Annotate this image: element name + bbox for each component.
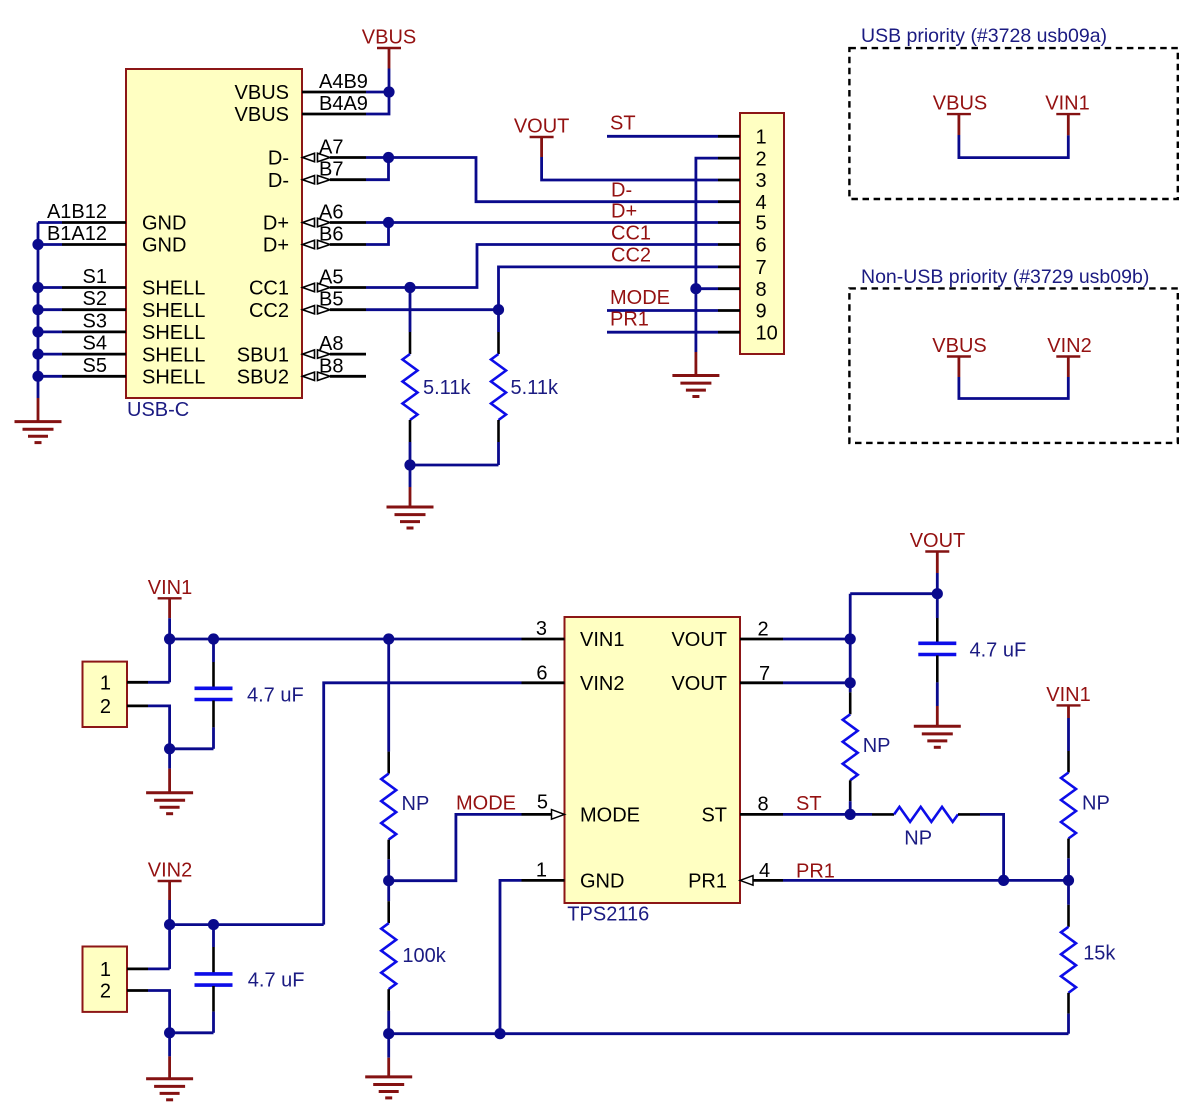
junction: [32, 304, 43, 315]
resistor R6 NP: [850, 813, 872, 816]
wire jumper b: [959, 377, 1068, 399]
svg-text:2: 2: [758, 619, 769, 641]
svg-text:GND: GND: [580, 871, 624, 893]
svg-text:5.11k: 5.11k: [423, 377, 471, 399]
junction: [32, 326, 43, 337]
junction: [494, 1028, 505, 1039]
wire cap bottom: [170, 747, 214, 750]
svg-text:B6: B6: [319, 224, 343, 246]
svg-text:NP: NP: [904, 828, 932, 850]
jumper option box usb09b: [849, 288, 1177, 443]
svg-text:VIN2: VIN2: [148, 860, 192, 882]
svg-text:4.7 uF: 4.7 uF: [248, 970, 305, 992]
svg-text:SHELL: SHELL: [142, 344, 205, 366]
resistor R4 100k: [387, 881, 390, 902]
header pin 2: [718, 157, 740, 160]
svg-text:A1B12: A1B12: [47, 201, 107, 223]
wire ST net: [783, 813, 850, 816]
svg-text:VOUT: VOUT: [671, 673, 727, 695]
wire VIN1 node: [168, 618, 171, 639]
svg-text:B8: B8: [319, 355, 343, 377]
junction: [1063, 875, 1074, 886]
svg-text:B5: B5: [319, 289, 343, 311]
svg-text:2: 2: [756, 148, 767, 170]
svg-text:PR1: PR1: [610, 309, 649, 331]
USB-C pin A7 (D-): [303, 153, 315, 161]
USB-C pin B6 (D+): [303, 240, 315, 248]
svg-text:S1: S1: [83, 266, 107, 288]
wire MODE net: [389, 814, 522, 880]
svg-text:D-: D-: [268, 170, 289, 192]
wire GND pin net: [500, 880, 522, 1033]
svg-text:A5: A5: [319, 267, 343, 289]
svg-text:D-: D-: [268, 148, 289, 170]
U1 pin 8 ST: [740, 813, 783, 816]
header pin 10: [718, 331, 740, 334]
svg-text:2: 2: [100, 696, 111, 718]
USB-C pin S5 (SHELL): [62, 375, 126, 378]
svg-text:ST: ST: [796, 793, 822, 815]
header pin 9: [718, 309, 740, 312]
wire GND bus left: [37, 223, 40, 399]
U1 pin 1 GND: [522, 879, 565, 882]
svg-text:VBUS: VBUS: [932, 335, 986, 357]
svg-text:VIN1: VIN1: [1046, 684, 1090, 706]
junction: [164, 743, 175, 754]
junction: [383, 875, 394, 886]
U1 pin 6 VIN2: [522, 681, 565, 684]
ground: [695, 352, 698, 376]
svg-text:5: 5: [756, 213, 767, 235]
svg-text:D-: D-: [611, 180, 632, 202]
svg-text:S3: S3: [83, 310, 107, 332]
svg-text:SHELL: SHELL: [142, 300, 205, 322]
ground: [168, 1033, 171, 1057]
svg-text:TPS2116: TPS2116: [567, 904, 649, 926]
svg-text:7: 7: [756, 257, 767, 279]
junction CC2: [493, 304, 504, 315]
wire GND bus header: [696, 158, 718, 352]
header pin 6: [718, 243, 740, 246]
svg-text:A7: A7: [319, 137, 343, 159]
junction: [404, 459, 415, 470]
wire PR1 net: [783, 879, 1069, 882]
wire PR1: [607, 331, 718, 334]
header pin 8: [718, 287, 740, 290]
svg-text:VBUS: VBUS: [933, 93, 987, 115]
svg-text:B7: B7: [319, 159, 343, 181]
USB-C pin S3 (SHELL): [62, 330, 126, 333]
svg-text:D+: D+: [263, 235, 289, 257]
U1 pin 5 MODE: [522, 813, 552, 816]
wire VIN2 node: [168, 900, 171, 925]
USB-C pin S4 (SHELL): [62, 353, 126, 356]
svg-text:VBUS: VBUS: [235, 104, 289, 126]
svg-text:1: 1: [100, 959, 111, 981]
header pin 4: [718, 200, 740, 203]
svg-text:CC1: CC1: [611, 223, 651, 245]
svg-text:MODE: MODE: [456, 793, 516, 815]
svg-text:B1A12: B1A12: [47, 223, 107, 245]
svg-text:VOUT: VOUT: [514, 116, 570, 138]
wire CC2: [366, 308, 499, 311]
svg-text:S2: S2: [83, 288, 107, 310]
wire VOUT to pin3: [542, 157, 718, 180]
svg-text:5.11k: 5.11k: [511, 377, 559, 399]
svg-text:D+: D+: [611, 201, 637, 223]
USB-C pin A6 (D+): [303, 218, 315, 226]
resistor R1 5.11k: [409, 288, 412, 333]
svg-text:USB-C: USB-C: [127, 399, 189, 421]
svg-text:1: 1: [536, 859, 547, 881]
resistor R3 NP: [387, 639, 390, 752]
junction: [845, 677, 856, 688]
jumper option box usb09a: [849, 48, 1177, 199]
junction: [845, 633, 856, 644]
svg-text:MODE: MODE: [580, 805, 640, 827]
wire D+: [366, 221, 389, 224]
svg-text:S4: S4: [83, 333, 107, 355]
USB-C pin S1 (SHELL): [62, 286, 126, 289]
capacitor C1 4.7uF: [212, 639, 215, 662]
svg-text:NP: NP: [1082, 793, 1110, 815]
wire CC1: [366, 286, 410, 289]
USB-C pin A5 (CC1): [303, 283, 315, 291]
junction: [208, 633, 219, 644]
svg-text:SHELL: SHELL: [142, 322, 205, 344]
svg-text:100k: 100k: [402, 945, 446, 967]
svg-text:VBUS: VBUS: [362, 27, 416, 49]
svg-text:9: 9: [756, 301, 767, 323]
svg-text:ST: ST: [610, 112, 636, 134]
capacitor C3 4.7uF: [212, 925, 215, 947]
wire VIN2 to pin6: [324, 683, 522, 925]
header pin 1: [718, 135, 740, 138]
svg-text:5: 5: [537, 791, 548, 813]
junction: [32, 371, 43, 382]
junction: [690, 283, 701, 294]
junction VBUS: [383, 86, 394, 97]
USB-C pin S2 (SHELL): [62, 308, 126, 311]
wire MODE: [607, 309, 718, 312]
wire bottom bus: [389, 1032, 1069, 1035]
USB-C pin A8 (SBU1): [303, 350, 315, 358]
svg-text:VOUT: VOUT: [671, 629, 727, 651]
junction D-: [383, 152, 394, 163]
svg-text:A6: A6: [319, 202, 343, 224]
junction: [383, 1028, 394, 1039]
ground: [387, 1034, 390, 1058]
svg-text:7: 7: [759, 663, 770, 685]
wire ST: [607, 135, 718, 138]
resistor R7 NP: [1067, 718, 1070, 751]
svg-text:4: 4: [759, 860, 770, 882]
header pin 7: [718, 265, 740, 268]
svg-text:B4A9: B4A9: [319, 93, 368, 115]
wire R bottoms: [410, 464, 499, 467]
svg-text:SBU1: SBU1: [237, 344, 289, 366]
svg-text:D+: D+: [263, 213, 289, 235]
svg-text:4.7 uF: 4.7 uF: [970, 640, 1027, 662]
ground: [409, 465, 412, 487]
junction CC1: [404, 282, 415, 293]
svg-text:PR1: PR1: [688, 871, 727, 893]
ground: [37, 398, 40, 422]
USB-C pin B1A12 (GND): [62, 243, 126, 246]
svg-text:CC2: CC2: [249, 300, 289, 322]
svg-text:SHELL: SHELL: [142, 367, 205, 389]
header pin 5: [718, 221, 740, 224]
svg-text:2: 2: [100, 981, 111, 1003]
USB-C pin A4B9 (VBUS): [302, 91, 366, 94]
svg-text:4.7 uF: 4.7 uF: [247, 685, 304, 707]
svg-text:CC1: CC1: [249, 278, 289, 300]
svg-text:NP: NP: [863, 735, 891, 757]
connector J1 USB-C body: [126, 69, 302, 398]
ground: [936, 706, 939, 726]
resistor R2 5.11k: [497, 310, 500, 332]
USB-C pin A1B12 (GND): [62, 221, 126, 224]
svg-text:SBU2: SBU2: [237, 367, 289, 389]
header pin 3: [718, 179, 740, 182]
svg-text:VIN2: VIN2: [580, 673, 624, 695]
USB-C pin B7 (D-): [303, 176, 315, 184]
USB-C pin B5 (CC2): [303, 306, 315, 314]
ground: [168, 749, 171, 769]
svg-text:15k: 15k: [1083, 942, 1116, 964]
svg-text:3: 3: [536, 618, 547, 640]
junction: [32, 282, 43, 293]
svg-text:ST: ST: [701, 805, 727, 827]
junction: [32, 349, 43, 360]
junction: [164, 1027, 175, 1038]
wire VOUT risers: [849, 594, 852, 683]
USB-C pin B8 (SBU2): [303, 372, 315, 380]
svg-text:1: 1: [100, 673, 111, 695]
junction D+: [383, 217, 394, 228]
svg-text:1: 1: [756, 127, 767, 149]
wire VBUS: [388, 69, 391, 93]
junction: [932, 588, 943, 599]
junction: [998, 875, 1009, 886]
connector J3 body: [83, 662, 128, 727]
svg-text:NP: NP: [402, 793, 430, 815]
svg-text:S5: S5: [83, 355, 107, 377]
junction: [164, 919, 175, 930]
svg-text:VIN1: VIN1: [1045, 93, 1089, 115]
svg-text:A4B9: A4B9: [319, 71, 368, 93]
svg-text:3: 3: [756, 170, 767, 192]
svg-text:VIN1: VIN1: [580, 629, 624, 651]
svg-text:VBUS: VBUS: [235, 82, 289, 104]
svg-text:VIN1: VIN1: [148, 577, 192, 599]
svg-text:Non-USB priority (#3729 usb09b: Non-USB priority (#3729 usb09b): [861, 266, 1149, 288]
U1 pin 3 VIN1: [522, 638, 565, 641]
svg-text:6: 6: [756, 235, 767, 257]
U1 pin 7 VOUT: [740, 681, 783, 684]
junction: [32, 239, 43, 250]
svg-text:VOUT: VOUT: [910, 530, 966, 552]
wire VOUT node: [936, 573, 939, 594]
svg-text:CC2: CC2: [611, 245, 651, 267]
svg-text:GND: GND: [142, 235, 186, 257]
svg-text:VIN2: VIN2: [1047, 335, 1091, 357]
svg-text:A8: A8: [319, 333, 343, 355]
IC U1 TPS2116 body: [565, 617, 741, 903]
svg-text:PR1: PR1: [796, 861, 835, 883]
svg-text:SHELL: SHELL: [142, 278, 205, 300]
svg-text:10: 10: [756, 322, 778, 344]
resistor R8 15k: [1067, 880, 1070, 904]
junction: [164, 633, 175, 644]
junction: [208, 919, 219, 930]
resistor R5 NP: [849, 683, 852, 692]
svg-text:8: 8: [756, 279, 767, 301]
svg-text:GND: GND: [142, 213, 186, 235]
capacitor C2 4.7uF: [936, 594, 939, 618]
junction: [383, 633, 394, 644]
connector J4 body: [83, 947, 128, 1012]
svg-text:MODE: MODE: [610, 287, 670, 309]
wire cap bottom: [170, 1031, 214, 1034]
USB-C pin B4A9 (VBUS): [302, 113, 366, 116]
connector J2 header body: [740, 113, 784, 354]
U1 pin 2 VOUT: [740, 638, 783, 641]
junction: [845, 809, 856, 820]
wire D-: [366, 156, 389, 159]
svg-text:8: 8: [758, 793, 769, 815]
U1 pin 4 PR1: [740, 876, 753, 886]
wire jumper a: [959, 135, 1068, 158]
svg-text:4: 4: [756, 192, 767, 214]
svg-text:USB priority (#3728 usb09a): USB priority (#3728 usb09a): [861, 25, 1107, 47]
svg-text:6: 6: [536, 663, 547, 685]
